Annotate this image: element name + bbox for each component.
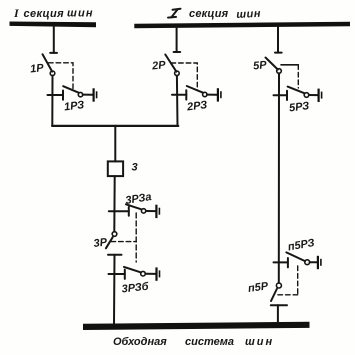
svg-text:шин: шин [245,336,274,348]
svg-text:5Р: 5Р [253,59,268,72]
svg-text:Обходная: Обходная [113,336,167,348]
svg-text:I: I [13,6,20,20]
svg-text:2РЗ: 2РЗ [185,99,207,113]
svg-text:2Р: 2Р [151,59,167,73]
svg-text:секция: секция [189,8,229,20]
svg-text:3РЗб: 3РЗб [121,281,150,296]
svg-text:3РЗа: 3РЗа [125,191,153,207]
svg-text:3: 3 [132,162,138,174]
svg-text:шин: шин [236,8,261,21]
svg-text:1РЗ: 1РЗ [63,99,84,113]
svg-text:5РЗ: 5РЗ [288,100,309,114]
svg-text:шин: шин [67,8,94,20]
svg-text:секция: секция [24,8,65,20]
svg-text:п5Р: п5Р [247,280,269,295]
svg-text:система: система [185,336,234,348]
svg-text:1Р: 1Р [30,62,45,75]
svg-text:3Р: 3Р [93,236,108,250]
svg-text:п5РЗ: п5РЗ [287,237,316,253]
